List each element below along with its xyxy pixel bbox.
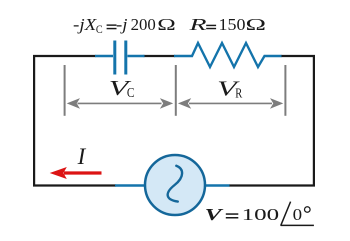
svg-text:C: C — [127, 85, 135, 100]
svg-text:I: I — [77, 144, 87, 169]
svg-text:0: 0 — [293, 205, 303, 224]
svg-text:V: V — [205, 205, 224, 224]
svg-text:Ω: Ω — [246, 15, 267, 34]
svg-text:R: R — [235, 86, 242, 101]
svg-text:100: 100 — [242, 205, 280, 224]
svg-text:Ω: Ω — [157, 15, 176, 34]
svg-text:R: R — [188, 15, 207, 34]
svg-text:-jX: -jX — [73, 15, 97, 34]
svg-text:C: C — [96, 24, 103, 36]
svg-text:-j: -j — [116, 15, 128, 34]
svg-text:200: 200 — [131, 15, 156, 34]
svg-text:150: 150 — [219, 15, 246, 34]
